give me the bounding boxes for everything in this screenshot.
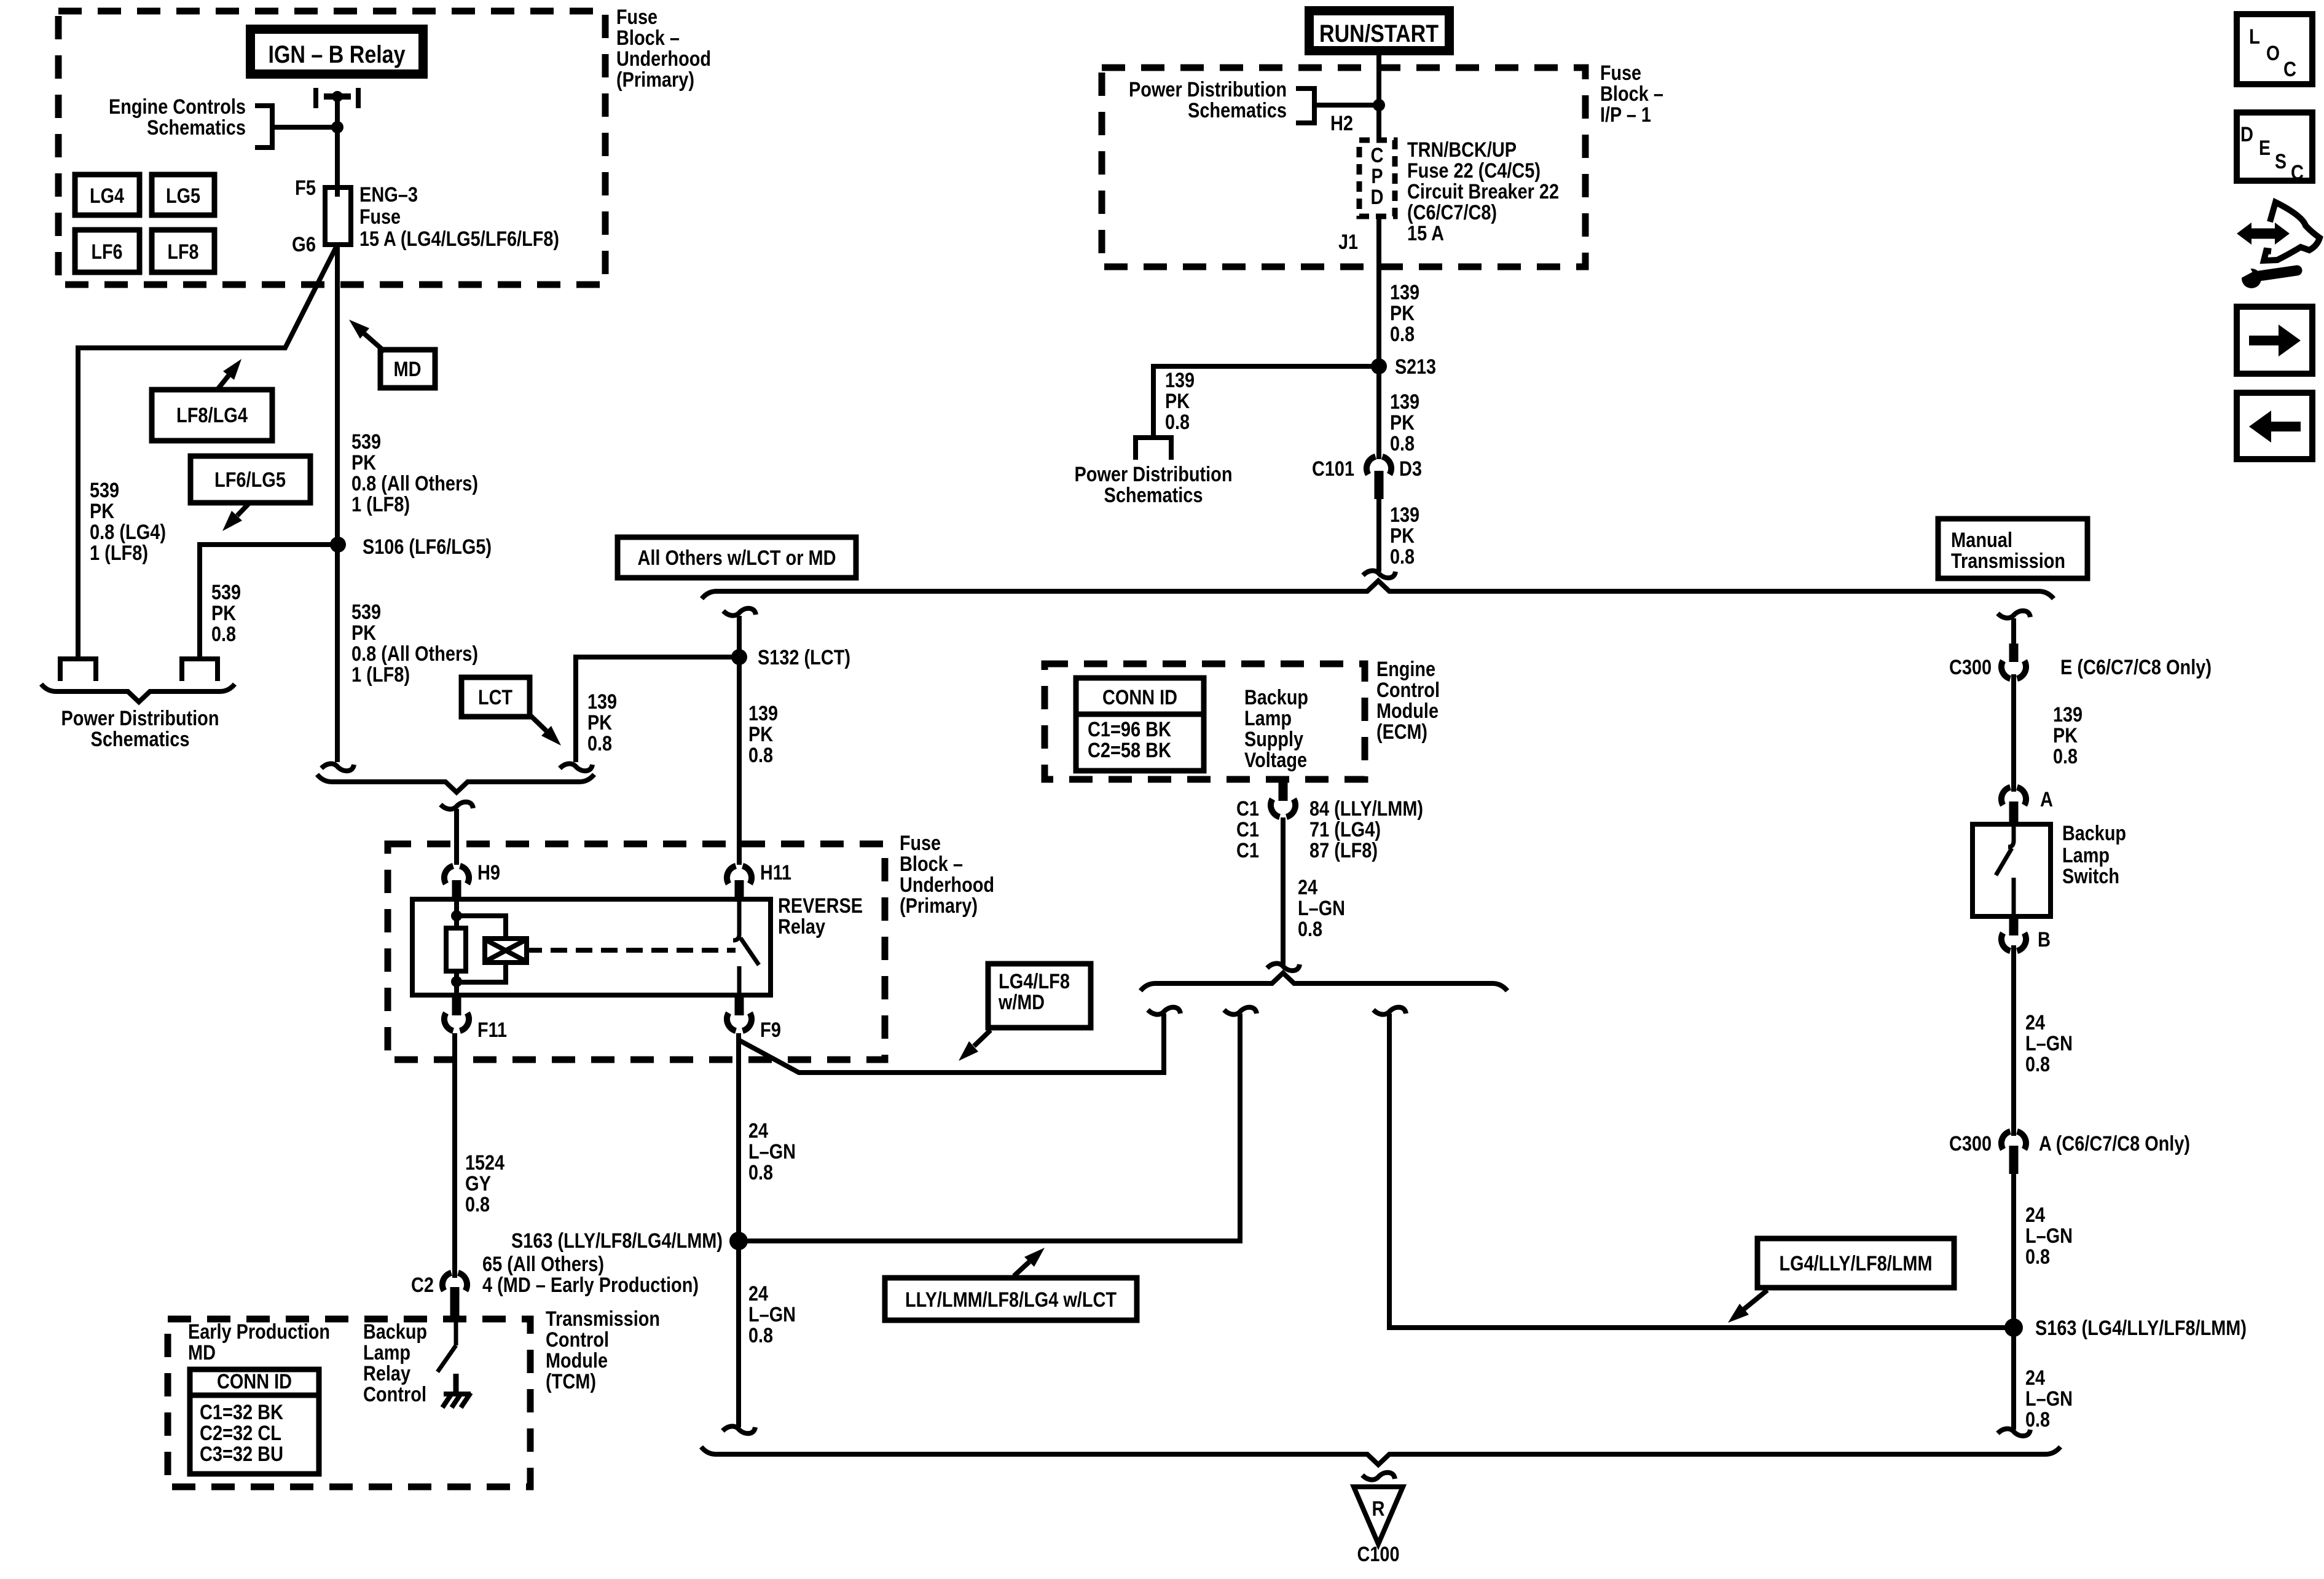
svg-text:Control: Control bbox=[546, 1328, 609, 1352]
wire stub right down and across to S163 right bbox=[1389, 1014, 2014, 1328]
wire F11 to C2 (1524 GY) bbox=[452, 1033, 457, 1278]
svg-text:Early Production: Early Production bbox=[188, 1320, 330, 1344]
svg-text:S163 (LG4/LLY/LF8/LMM): S163 (LG4/LLY/LF8/LMM) bbox=[2035, 1317, 2247, 1340]
svg-text:L–GN: L–GN bbox=[748, 1303, 796, 1326]
svg-text:Switch: Switch bbox=[2062, 865, 2119, 888]
fuse F5 ENG-3 body bbox=[325, 187, 351, 245]
svg-text:539: 539 bbox=[90, 479, 119, 502]
node junction H2 bracket bbox=[1373, 99, 1385, 111]
svg-text:Underhood: Underhood bbox=[616, 47, 711, 71]
svg-text:D: D bbox=[2240, 123, 2253, 146]
svg-text:C: C bbox=[2283, 58, 2296, 81]
svg-text:D3: D3 bbox=[1399, 457, 1422, 481]
svg-text:A (C6/C7/C8 Only): A (C6/C7/C8 Only) bbox=[2039, 1132, 2190, 1156]
hook F9 wire end at bottom bus bbox=[723, 1427, 755, 1434]
wire C300 E to switch pin A bbox=[2011, 674, 2016, 792]
flag box LG4/LF8 w/MD bbox=[988, 964, 1091, 1028]
svg-text:L–GN: L–GN bbox=[2025, 1387, 2073, 1411]
svg-text:Block –: Block – bbox=[616, 26, 680, 50]
relay coil branch node top bbox=[454, 899, 459, 928]
svg-text:Power Distribution: Power Distribution bbox=[1075, 463, 1233, 486]
svg-text:I/P – 1: I/P – 1 bbox=[1600, 103, 1651, 127]
wire S163-left to second bus stub bbox=[739, 1014, 1240, 1241]
svg-text:0.8: 0.8 bbox=[1165, 411, 1190, 434]
svg-text:S: S bbox=[2275, 150, 2287, 173]
svg-text:Manual: Manual bbox=[1951, 529, 2012, 552]
svg-text:L: L bbox=[2249, 25, 2260, 49]
svg-text:C: C bbox=[1371, 144, 1384, 167]
arrow LF6/LG5 to splice S106 wire bbox=[237, 502, 251, 516]
svg-text:L–GN: L–GN bbox=[2025, 1224, 2073, 1248]
svg-text:0.8: 0.8 bbox=[2053, 745, 2078, 768]
svg-text:LG4/LF8: LG4/LF8 bbox=[999, 970, 1070, 993]
svg-text:Fuse: Fuse bbox=[359, 205, 401, 229]
svg-text:PK: PK bbox=[748, 723, 773, 746]
hook bus to S132 drop bbox=[723, 608, 756, 616]
svg-text:0.8: 0.8 bbox=[465, 1193, 490, 1216]
svg-text:1524: 1524 bbox=[465, 1151, 504, 1175]
svg-text:PK: PK bbox=[1390, 302, 1415, 325]
svg-text:PK: PK bbox=[1165, 390, 1190, 413]
flag box All Others w/LCT or MD bbox=[618, 537, 856, 578]
svg-text:Lamp: Lamp bbox=[2062, 844, 2110, 867]
svg-text:Control: Control bbox=[363, 1383, 426, 1406]
svg-text:PK: PK bbox=[1390, 411, 1415, 435]
svg-text:A: A bbox=[2040, 788, 2053, 811]
fuse CPD TRN/BCK/UP dashed body bbox=[1359, 140, 1395, 216]
svg-text:139: 139 bbox=[1390, 390, 1419, 414]
splice S106 bbox=[330, 537, 346, 553]
svg-text:LF6/LG5: LF6/LG5 bbox=[214, 468, 286, 492]
svg-text:D: D bbox=[1371, 186, 1384, 209]
svg-text:0.8: 0.8 bbox=[211, 623, 236, 646]
svg-text:PK: PK bbox=[351, 621, 376, 645]
svg-text:C2=32 CL: C2=32 CL bbox=[200, 1422, 281, 1445]
svg-text:L–GN: L–GN bbox=[1298, 897, 1345, 920]
wire S213 branch left bbox=[1153, 366, 1379, 436]
svg-text:(TCM): (TCM) bbox=[546, 1370, 596, 1393]
svg-text:B: B bbox=[2038, 928, 2051, 951]
svg-text:139: 139 bbox=[1165, 369, 1195, 392]
hook wire end above underhood brace bbox=[321, 764, 354, 771]
svg-text:139: 139 bbox=[1390, 281, 1419, 304]
svg-text:Backup: Backup bbox=[1244, 686, 1308, 709]
relay switch contacts bbox=[733, 899, 739, 940]
svg-text:24: 24 bbox=[2025, 1011, 2045, 1034]
label box LG5 bbox=[152, 175, 214, 215]
svg-text:0.8: 0.8 bbox=[1298, 918, 1322, 941]
flag box LLY/LMM/LF8/LG4 w/LCT bbox=[885, 1278, 1137, 1320]
wire diagonal branch from G6 to left page connector bbox=[78, 247, 336, 657]
svg-text:C2: C2 bbox=[411, 1274, 434, 1297]
svg-text:Power Distribution: Power Distribution bbox=[1129, 78, 1287, 101]
pin F11 connector bbox=[452, 995, 461, 1015]
svg-text:S213: S213 bbox=[1395, 355, 1436, 379]
flag box LF6/LG5 bbox=[190, 456, 310, 503]
svg-text:Underhood: Underhood bbox=[900, 873, 994, 897]
svg-text:F9: F9 bbox=[760, 1018, 781, 1042]
arrow LG4/LF8 w/MD to wire bbox=[974, 1030, 991, 1046]
icon next arrow button bbox=[2237, 307, 2312, 374]
svg-text:H11: H11 bbox=[760, 861, 791, 884]
svg-text:MD: MD bbox=[394, 358, 422, 381]
wire fuse G6 down to brace (539 PK) bbox=[335, 245, 340, 762]
svg-text:C1: C1 bbox=[1236, 797, 1259, 821]
svg-text:71 (LG4): 71 (LG4) bbox=[1309, 818, 1381, 841]
wire CPD J1 down to S213 bbox=[1376, 216, 1381, 366]
svg-text:C1=96 BK: C1=96 BK bbox=[1088, 718, 1171, 741]
hook stub middle bbox=[1224, 1007, 1257, 1015]
svg-text:139: 139 bbox=[2053, 703, 2083, 726]
svg-text:PK: PK bbox=[2053, 724, 2078, 747]
svg-text:C: C bbox=[2291, 161, 2304, 184]
arrow MD to wire bbox=[364, 334, 385, 352]
splice S163 left bbox=[729, 1232, 748, 1250]
svg-text:Module: Module bbox=[546, 1349, 608, 1372]
svg-text:C1=32 BK: C1=32 BK bbox=[200, 1401, 283, 1424]
svg-text:Relay: Relay bbox=[778, 915, 825, 939]
svg-text:C101: C101 bbox=[1312, 457, 1354, 481]
svg-text:L–GN: L–GN bbox=[748, 1140, 796, 1164]
table CONN ID early production bbox=[190, 1369, 319, 1474]
power distribution bracket H2 bbox=[1296, 89, 1314, 123]
svg-text:C300: C300 bbox=[1949, 1132, 1992, 1156]
svg-text:1 (LF8): 1 (LF8) bbox=[90, 541, 148, 565]
svg-text:139: 139 bbox=[1390, 503, 1419, 527]
node junction to engine controls bracket bbox=[331, 121, 343, 133]
hook LCT wire end bbox=[560, 764, 592, 771]
svg-text:Fuse: Fuse bbox=[1600, 61, 1641, 85]
arrow LG4/LLY/LF8/LMM to wire bbox=[1744, 1290, 1767, 1309]
svg-text:CONN ID: CONN ID bbox=[1102, 686, 1177, 709]
switch backup lamp relay control in TCM bbox=[454, 1316, 458, 1345]
svg-text:E (C6/C7/C8 Only): E (C6/C7/C8 Only) bbox=[2060, 656, 2212, 679]
svg-text:0.8 (All Others): 0.8 (All Others) bbox=[351, 642, 478, 666]
switch blade backup lamp switch bbox=[2008, 824, 2014, 847]
wire IGN-B relay to fuse F5 bbox=[335, 96, 340, 197]
wire F9 down to bottom bus (24 L-GN) bbox=[736, 1033, 741, 1427]
svg-text:0.8 (All Others): 0.8 (All Others) bbox=[351, 472, 478, 495]
flag box LF8/LG4 bbox=[152, 390, 272, 441]
hook stub right to S163 right bbox=[1373, 1007, 1406, 1015]
svg-text:Relay: Relay bbox=[363, 1362, 410, 1385]
svg-text:Fuse: Fuse bbox=[900, 832, 941, 855]
hook stub LG4/LF8 w/MD bbox=[1148, 1007, 1180, 1015]
svg-text:TRN/BCK/UP: TRN/BCK/UP bbox=[1407, 138, 1517, 162]
hook ECM wire end bbox=[1267, 964, 1300, 971]
svg-text:Transmission: Transmission bbox=[546, 1307, 660, 1331]
svg-text:CONN ID: CONN ID bbox=[217, 1370, 292, 1393]
svg-text:PK: PK bbox=[90, 500, 114, 523]
relay coil solenoid box with X bbox=[485, 939, 527, 963]
svg-text:Engine Controls: Engine Controls bbox=[109, 95, 246, 119]
svg-text:Block –: Block – bbox=[900, 853, 963, 876]
pin A connector backup lamp switch bbox=[2001, 787, 2026, 805]
svg-text:G6: G6 bbox=[292, 233, 316, 256]
svg-text:139: 139 bbox=[748, 702, 778, 725]
svg-text:C100: C100 bbox=[1357, 1543, 1400, 1566]
underbrace power distribution left bbox=[41, 684, 235, 702]
svg-text:LF8: LF8 bbox=[168, 240, 199, 264]
fuse block underhood primary dashed box second bbox=[388, 844, 885, 1060]
svg-text:P: P bbox=[1372, 165, 1383, 188]
pin H11 connector bbox=[727, 866, 752, 884]
svg-text:RUN/START: RUN/START bbox=[1319, 20, 1439, 47]
svg-text:65 (All Others): 65 (All Others) bbox=[482, 1253, 604, 1276]
svg-text:(ECM): (ECM) bbox=[1376, 720, 1427, 744]
icon back arrow button bbox=[2237, 393, 2312, 459]
svg-text:S163 (LLY/LF8/LG4/LMM): S163 (LLY/LF8/LG4/LMM) bbox=[511, 1229, 723, 1253]
svg-text:Control: Control bbox=[1376, 679, 1440, 702]
svg-text:84 (LLY/LMM): 84 (LLY/LMM) bbox=[1309, 797, 1423, 821]
svg-text:24: 24 bbox=[2025, 1203, 2045, 1227]
svg-text:PK: PK bbox=[351, 451, 376, 474]
splice S213 bbox=[1371, 358, 1387, 374]
wire branch F9 to LG4/LF8 w/MD bus stub bbox=[739, 1014, 1164, 1073]
wire bus down to S132 bbox=[737, 616, 742, 657]
svg-text:4 (MD – Early Production): 4 (MD – Early Production) bbox=[482, 1274, 699, 1297]
splice S163 right bbox=[2004, 1318, 2023, 1337]
wire S213 to C101 bbox=[1376, 366, 1381, 459]
svg-text:Backup: Backup bbox=[2062, 822, 2126, 845]
hook below brace to H9 bbox=[441, 802, 473, 809]
svg-text:Block –: Block – bbox=[1600, 82, 1663, 106]
svg-text:F11: F11 bbox=[477, 1018, 507, 1042]
svg-text:H2: H2 bbox=[1330, 112, 1353, 135]
svg-text:J1: J1 bbox=[1338, 230, 1358, 254]
icon DESC button bbox=[2237, 112, 2312, 181]
svg-text:R: R bbox=[1372, 1497, 1385, 1521]
svg-text:139: 139 bbox=[587, 690, 617, 714]
svg-text:LG4/LLY/LF8/LMM: LG4/LLY/LF8/LMM bbox=[1780, 1252, 1933, 1275]
svg-text:C300: C300 bbox=[1949, 656, 1992, 679]
svg-text:0.8: 0.8 bbox=[587, 732, 612, 755]
svg-text:S132 (LCT): S132 (LCT) bbox=[758, 646, 850, 669]
svg-text:PK: PK bbox=[211, 602, 236, 625]
power feed RUN/START title box bbox=[1305, 6, 1454, 55]
svg-text:Voltage: Voltage bbox=[1244, 749, 1307, 772]
relay coil branch node bottom bbox=[454, 971, 459, 995]
svg-text:0.8: 0.8 bbox=[2025, 1053, 2050, 1076]
svg-text:0.8: 0.8 bbox=[1390, 432, 1415, 455]
main feed overbrace bus bbox=[702, 581, 2054, 599]
pin C1 ECM connector bbox=[1279, 779, 1288, 801]
svg-text:Circuit Breaker 22: Circuit Breaker 22 bbox=[1407, 180, 1559, 203]
hook bus right drop to C300 E bbox=[1998, 611, 2030, 618]
switch Backup Lamp Switch box bbox=[1973, 824, 2051, 916]
wire brace to H9 bbox=[454, 809, 459, 865]
svg-text:S106 (LF6/LG5): S106 (LF6/LG5) bbox=[363, 535, 492, 559]
svg-text:539: 539 bbox=[351, 600, 381, 624]
page connector to power distribution (second) bbox=[179, 656, 220, 661]
arrow LCT to wire bbox=[530, 715, 546, 731]
svg-text:0.8 (LG4): 0.8 (LG4) bbox=[90, 521, 166, 544]
svg-text:Schematics: Schematics bbox=[147, 116, 246, 140]
svg-text:(Primary): (Primary) bbox=[900, 894, 978, 918]
fuse block underhood primary dashed box bbox=[58, 11, 605, 285]
page connector power distribution S213 branch bbox=[1133, 435, 1174, 440]
wire S106 branch left down to page connector bbox=[200, 545, 338, 657]
svg-text:24: 24 bbox=[748, 1282, 768, 1305]
engine controls schematics reference bracket bbox=[255, 106, 272, 148]
svg-text:24: 24 bbox=[1298, 876, 1317, 899]
svg-text:E: E bbox=[2259, 136, 2271, 160]
svg-text:REVERSE: REVERSE bbox=[778, 894, 863, 918]
svg-text:ENG–3: ENG–3 bbox=[359, 183, 418, 207]
wire D3 to main bus bbox=[1376, 499, 1381, 572]
svg-text:24: 24 bbox=[2025, 1366, 2045, 1390]
svg-text:Supply: Supply bbox=[1244, 728, 1303, 751]
svg-text:C1: C1 bbox=[1236, 839, 1259, 862]
icon vehicle outline with double arrow and wrench bbox=[2250, 229, 2277, 239]
flag box LCT bbox=[461, 677, 530, 717]
page connector to power distribution (left) bbox=[58, 656, 98, 661]
svg-text:539: 539 bbox=[211, 581, 241, 604]
svg-text:539: 539 bbox=[351, 430, 381, 454]
svg-text:PK: PK bbox=[1390, 524, 1415, 548]
svg-text:Engine: Engine bbox=[1376, 658, 1435, 681]
relay K1 IGN - B Relay title box bbox=[246, 25, 428, 79]
svg-text:LF8/LG4: LF8/LG4 bbox=[176, 404, 248, 427]
svg-text:Backup: Backup bbox=[363, 1320, 427, 1344]
pin B connector backup lamp switch bbox=[2009, 916, 2019, 935]
svg-text:Lamp: Lamp bbox=[1244, 707, 1292, 730]
svg-text:Power Distribution: Power Distribution bbox=[61, 707, 219, 730]
overbrace bus2 ECM feed bbox=[1140, 973, 1507, 991]
svg-text:O: O bbox=[2266, 42, 2280, 65]
svg-text:1 (LF8): 1 (LF8) bbox=[351, 493, 410, 516]
flag box LG4/LLY/LF8/LMM bbox=[1757, 1238, 1954, 1288]
wire C300 A to S163 right bbox=[2011, 1174, 2016, 1328]
svg-text:C1: C1 bbox=[1236, 818, 1259, 841]
svg-text:15 A: 15 A bbox=[1407, 222, 1444, 245]
module TCM dashed box bbox=[168, 1319, 530, 1487]
arrow LLY/LMM/LF8/LG4 w/LCT to wire bbox=[1014, 1262, 1029, 1276]
icon LOC button bbox=[2237, 14, 2312, 84]
wire S163 right down to bottom bus bbox=[2011, 1328, 2016, 1430]
svg-text:Module: Module bbox=[1376, 699, 1439, 723]
wire bus to C300 E bbox=[2011, 618, 2016, 644]
wire S132 left branch down to brace bbox=[576, 657, 739, 762]
splice S132 bbox=[731, 649, 747, 665]
svg-text:(C6/C7/C8): (C6/C7/C8) bbox=[1407, 201, 1497, 224]
fuse block IP dashed box bbox=[1102, 68, 1585, 267]
svg-text:Schematics: Schematics bbox=[91, 728, 190, 751]
svg-text:PK: PK bbox=[587, 711, 612, 734]
svg-text:L–GN: L–GN bbox=[2025, 1032, 2073, 1055]
svg-text:0.8: 0.8 bbox=[1390, 545, 1415, 569]
svg-text:LCT: LCT bbox=[478, 686, 512, 709]
svg-text:0.8: 0.8 bbox=[2025, 1408, 2050, 1431]
ground chassis TCM bbox=[444, 1392, 471, 1396]
svg-text:(Primary): (Primary) bbox=[616, 68, 694, 92]
svg-text:LF6: LF6 bbox=[92, 240, 123, 264]
svg-text:Fuse: Fuse bbox=[616, 6, 658, 29]
pin H9 connector bbox=[444, 866, 469, 884]
relay REVERSE Relay box bbox=[412, 899, 771, 995]
underbrace reverse relay feed bbox=[317, 774, 594, 792]
svg-text:87 (LF8): 87 (LF8) bbox=[1309, 839, 1378, 862]
wire relay parallel branch bbox=[457, 916, 506, 982]
svg-text:H9: H9 bbox=[477, 861, 500, 884]
label box LF8 bbox=[152, 230, 214, 272]
dashed mechanical link relay bbox=[527, 948, 542, 953]
flag box Manual Transmission bbox=[1938, 519, 2087, 578]
svg-text:Fuse 22 (C4/C5): Fuse 22 (C4/C5) bbox=[1407, 159, 1541, 183]
underbrace bottom bus to C100 bbox=[701, 1447, 2060, 1465]
svg-text:All Others w/LCT or MD: All Others w/LCT or MD bbox=[638, 546, 836, 570]
svg-text:24: 24 bbox=[748, 1119, 768, 1143]
wire RUN/START down to CPD bbox=[1376, 55, 1381, 140]
hook main feed end at bus bbox=[1363, 571, 1396, 578]
svg-text:GY: GY bbox=[465, 1172, 491, 1195]
svg-text:0.8: 0.8 bbox=[748, 744, 773, 767]
IGN-B relay terminal symbol bbox=[313, 88, 318, 108]
wire ECM C1 down to bus2 bbox=[1281, 817, 1286, 965]
wire B to C300 A bbox=[2011, 945, 2016, 1136]
svg-text:15 A (LG4/LG5/LF6/LF8): 15 A (LG4/LG5/LF6/LF8) bbox=[359, 227, 559, 251]
svg-text:1 (LF8): 1 (LF8) bbox=[351, 663, 410, 687]
arrow LF8/LG4 to wire bbox=[216, 376, 229, 391]
svg-text:Transmission: Transmission bbox=[1951, 549, 2065, 573]
table CONN ID ECM bbox=[1076, 678, 1204, 771]
label box LF6 bbox=[75, 230, 139, 272]
svg-text:w/MD: w/MD bbox=[998, 991, 1045, 1014]
hook right wire end at bottom bus bbox=[1998, 1429, 2030, 1436]
pin F9 connector bbox=[735, 995, 744, 1015]
svg-text:C2=58 BK: C2=58 BK bbox=[1088, 739, 1171, 762]
svg-text:C3=32 BU: C3=32 BU bbox=[200, 1443, 283, 1466]
svg-text:MD: MD bbox=[188, 1341, 216, 1364]
svg-text:IGN – B Relay: IGN – B Relay bbox=[269, 41, 406, 68]
svg-text:F5: F5 bbox=[295, 176, 316, 200]
hook below bottom bus bbox=[1362, 1473, 1395, 1480]
resistor relay internal bbox=[446, 928, 466, 971]
svg-text:Schematics: Schematics bbox=[1188, 99, 1287, 122]
module ECM dashed box bbox=[1045, 664, 1365, 779]
svg-text:0.8: 0.8 bbox=[1390, 323, 1415, 346]
svg-text:LG5: LG5 bbox=[166, 184, 200, 208]
svg-text:Schematics: Schematics bbox=[1104, 484, 1203, 507]
svg-text:LG4: LG4 bbox=[90, 184, 124, 208]
connector C100 R triangle bbox=[1354, 1487, 1403, 1544]
flag box MD bbox=[380, 350, 435, 388]
svg-text:0.8: 0.8 bbox=[2025, 1245, 2050, 1269]
svg-text:0.8: 0.8 bbox=[748, 1324, 773, 1347]
wire S132 to H11 bbox=[737, 657, 742, 865]
label box LG4 bbox=[75, 175, 139, 215]
svg-text:LLY/LMM/LF8/LG4 w/LCT: LLY/LMM/LF8/LG4 w/LCT bbox=[905, 1288, 1117, 1312]
svg-text:Lamp: Lamp bbox=[363, 1341, 410, 1364]
svg-text:0.8: 0.8 bbox=[748, 1161, 773, 1184]
